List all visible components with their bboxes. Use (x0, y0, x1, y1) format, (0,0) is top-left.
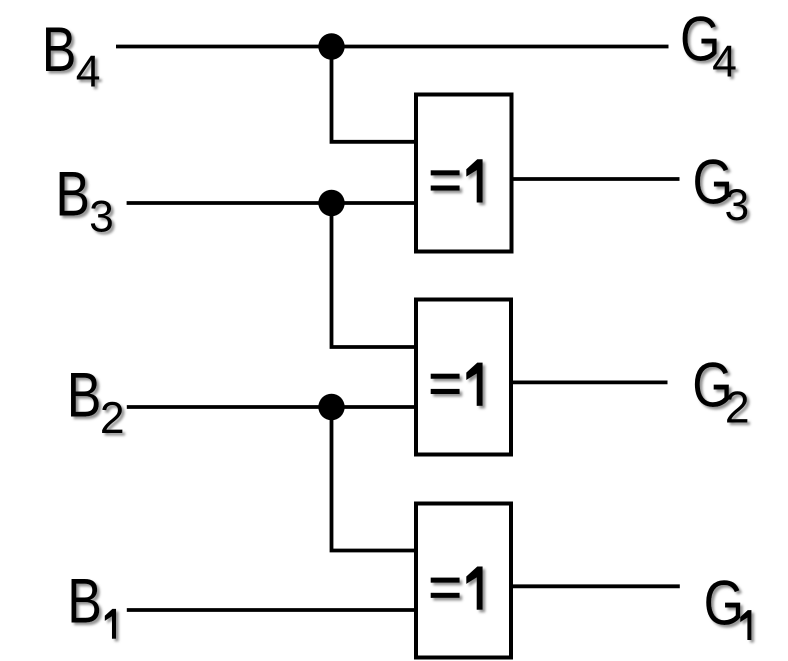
wire XOR U2 output to G2 (511, 380, 668, 384)
node junction on B4 net (318, 33, 344, 59)
svg-text:2: 2 (725, 384, 750, 433)
svg-text:G: G (704, 568, 744, 639)
node junction on B2 net (318, 394, 344, 420)
wire net B2 to XOR U2 input B (127, 405, 416, 409)
node junction on B3 net (318, 190, 344, 216)
xor gate U3 label =1 (431, 567, 483, 610)
wire junction B4 to XOR U1 input A (332, 47, 417, 142)
wire net B3 to XOR U1 input B (127, 201, 416, 205)
xor gate U3 box (416, 504, 511, 658)
xor gate U2 box (416, 300, 511, 455)
wire XOR U3 output to G1 (511, 584, 680, 588)
xor gate U2 label =1 (431, 363, 483, 406)
label G2 (692, 349, 749, 432)
wire net B1 to XOR U3 input B (127, 608, 416, 612)
wire junction B2 to XOR U3 input A (332, 407, 417, 551)
svg-text:4: 4 (712, 38, 737, 87)
svg-text:B: B (67, 565, 102, 636)
svg-text:B: B (42, 14, 77, 85)
xor gate U1 label =1 (431, 159, 483, 202)
label B1 (67, 565, 116, 638)
svg-text:3: 3 (725, 181, 750, 230)
wire net B4 from input to G4 (116, 45, 669, 49)
label B4 (42, 14, 101, 96)
label G3 (693, 147, 750, 230)
svg-text:B: B (67, 360, 102, 431)
wire XOR U1 output to G3 (512, 177, 680, 181)
svg-text:2: 2 (100, 394, 125, 443)
label G4 (680, 3, 737, 86)
svg-text:4: 4 (76, 47, 101, 96)
svg-text:B: B (55, 158, 90, 229)
xor gate U1 box (416, 95, 512, 252)
label G1 (704, 568, 752, 640)
svg-text:3: 3 (89, 193, 114, 242)
wire junction B3 to XOR U2 input A (332, 203, 417, 347)
label B2 (67, 360, 125, 443)
label B3 (55, 158, 113, 241)
